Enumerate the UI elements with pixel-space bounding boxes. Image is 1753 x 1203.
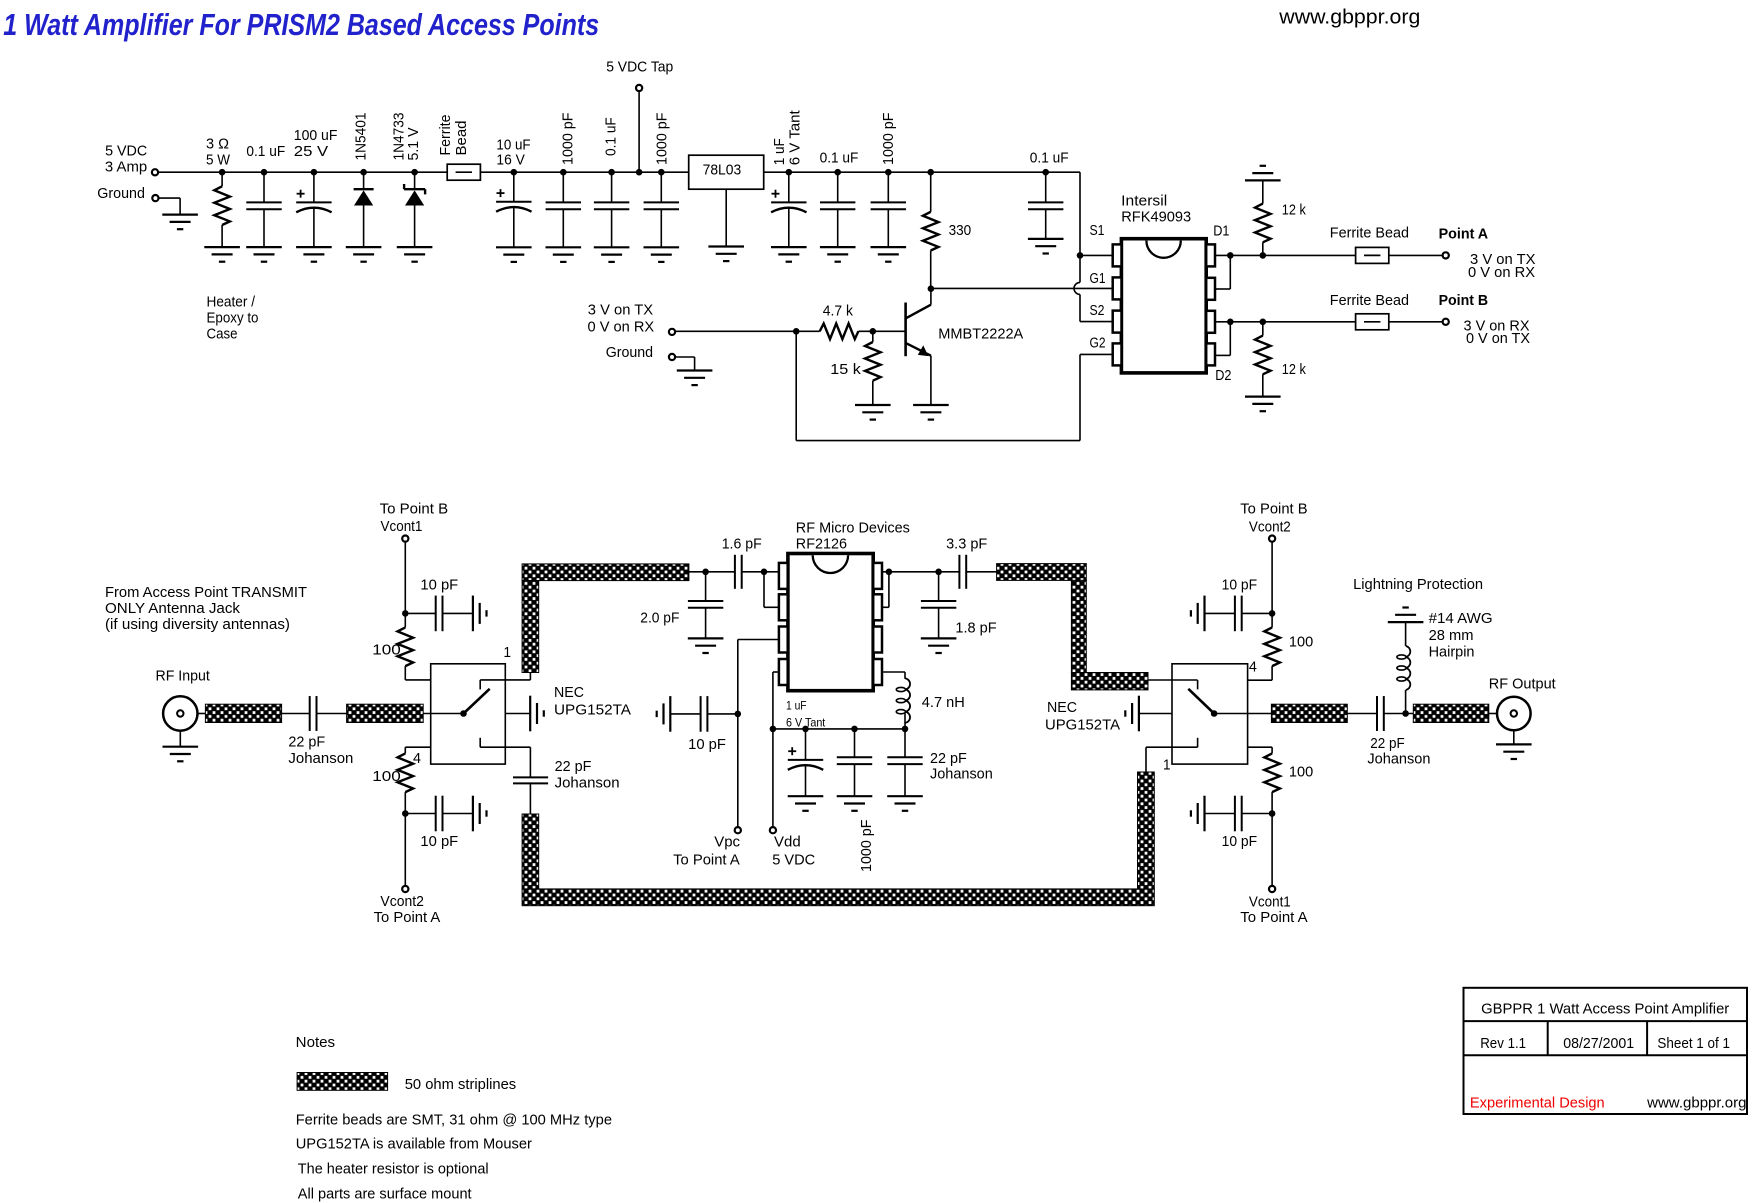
svg-text:Ferrite Bead: Ferrite Bead bbox=[1330, 225, 1409, 242]
ground bbox=[887, 795, 923, 797]
svg-text:UPG152TA is available from Mou: UPG152TA is available from Mouser bbox=[296, 1136, 532, 1153]
ground bbox=[771, 246, 807, 248]
svg-text:1000 pF: 1000 pF bbox=[880, 113, 897, 166]
stripline input segment 1 bbox=[205, 704, 281, 722]
svg-text:0.1 uF: 0.1 uF bbox=[603, 117, 620, 156]
svg-text:100: 100 bbox=[372, 768, 401, 785]
svg-text:RF Input: RF Input bbox=[156, 668, 211, 685]
node S1 junction bbox=[1077, 252, 1084, 259]
svg-text:0.1 uF: 0.1 uF bbox=[246, 143, 285, 160]
node control ground terminal bbox=[669, 354, 675, 360]
ground bbox=[296, 246, 332, 248]
wire 3.3 pF to stripline bbox=[966, 571, 996, 573]
switch U5 NEC UPG152TA (output) bbox=[1172, 664, 1248, 764]
node Vcont1 terminal (to Point A) bbox=[1271, 814, 1273, 886]
pole termination ground (rotated) bbox=[505, 713, 530, 715]
ground bbox=[546, 246, 582, 248]
svg-text:25 V: 25 V bbox=[294, 143, 328, 160]
capacitor 0.1 uF bbox=[834, 169, 841, 176]
svg-text:G1: G1 bbox=[1090, 270, 1106, 287]
switch throw 1 contact bbox=[479, 680, 481, 690]
pin G1 bbox=[1113, 277, 1122, 299]
pin D2 bbox=[1206, 311, 1215, 333]
stripline legend swatch bbox=[297, 1073, 388, 1091]
svg-text:S1: S1 bbox=[1090, 222, 1105, 239]
svg-text:Vcont2: Vcont2 bbox=[1249, 519, 1291, 536]
ground (input) bbox=[162, 214, 198, 216]
svg-text:5 VDC: 5 VDC bbox=[105, 143, 147, 160]
pin 2 right bbox=[1206, 278, 1215, 300]
svg-text:4.7 k: 4.7 k bbox=[823, 303, 854, 320]
resistor 12 k (D2) bbox=[1262, 322, 1264, 336]
wire stripline to throw 1 bbox=[1148, 679, 1198, 681]
svg-text:1 uF: 1 uF bbox=[786, 699, 807, 713]
wire pin 2 link bbox=[763, 572, 765, 608]
svg-text:1.8 pF: 1.8 pF bbox=[955, 620, 996, 637]
svg-text:UPG152TA: UPG152TA bbox=[554, 702, 631, 719]
connector RF Output bbox=[1489, 713, 1497, 715]
svg-text:Vcont1: Vcont1 bbox=[1249, 894, 1291, 911]
IC U4 RF Micro Devices RF2126 bbox=[788, 554, 873, 691]
svg-text:Experimental Design: Experimental Design bbox=[1470, 1095, 1605, 1112]
switch arm bbox=[464, 689, 490, 714]
connector RF Input bbox=[163, 696, 197, 730]
svg-text:12 k: 12 k bbox=[1282, 202, 1306, 219]
capacitor 10 pF (Vcont1 bypass) bbox=[402, 610, 409, 617]
svg-text:100: 100 bbox=[1289, 634, 1313, 651]
node switch pole bbox=[1211, 710, 1218, 717]
ground (control input) bbox=[677, 369, 713, 371]
node switch pole bbox=[460, 710, 467, 717]
wire pole output bbox=[1214, 713, 1271, 715]
stripline bottom bus bbox=[522, 889, 1154, 906]
svg-text:ONLY Antenna Jack: ONLY Antenna Jack bbox=[105, 600, 240, 617]
svg-text:Ferrite: Ferrite bbox=[437, 115, 454, 156]
svg-text:22 pF: 22 pF bbox=[555, 758, 592, 775]
inductor #14 AWG 28 mm hairpin bbox=[1405, 690, 1407, 714]
ground (RF input connector) bbox=[163, 746, 199, 748]
capacitor 1.6 pF bbox=[734, 555, 736, 589]
node Vpc terminal bbox=[735, 827, 741, 833]
svg-text:5 W: 5 W bbox=[206, 151, 231, 168]
ground bbox=[1028, 238, 1064, 240]
wire pin 7 link bbox=[888, 572, 890, 608]
svg-text:Vcont2: Vcont2 bbox=[380, 893, 424, 910]
svg-text:1000 pF: 1000 pF bbox=[559, 113, 576, 166]
svg-text:RFK49093: RFK49093 bbox=[1121, 209, 1191, 226]
node Point A terminal bbox=[1443, 252, 1449, 258]
svg-text:3 Amp: 3 Amp bbox=[105, 159, 147, 176]
ferrite bead (series, power rail) bbox=[447, 164, 480, 180]
capacitor 1000 pF bbox=[658, 169, 665, 176]
svg-text:The heater resistor is optiona: The heater resistor is optional bbox=[298, 1161, 489, 1178]
resistor 100 (upper, switch 2) bbox=[1271, 613, 1273, 627]
svg-text:To Point A: To Point A bbox=[673, 852, 740, 869]
regulator U2 78L03 bbox=[689, 155, 764, 189]
capacitor 100 uF 25 V electrolytic bbox=[311, 169, 318, 176]
svg-text:Ferrite beads are SMT, 31 ohm: Ferrite beads are SMT, 31 ohm @ 100 MHz … bbox=[296, 1112, 612, 1129]
svg-text:1.6 pF: 1.6 pF bbox=[722, 536, 762, 553]
ground (2.0 pF) bbox=[688, 637, 724, 639]
svg-text:3 Ω: 3 Ω bbox=[206, 135, 229, 152]
svg-text:0 V on RX: 0 V on RX bbox=[588, 319, 655, 336]
svg-text:100 uF: 100 uF bbox=[294, 127, 338, 144]
svg-text:1000 pF: 1000 pF bbox=[653, 113, 670, 166]
svg-text:10 pF: 10 pF bbox=[1222, 833, 1258, 850]
svg-text:Johanson: Johanson bbox=[288, 750, 353, 767]
svg-text:Vdd: Vdd bbox=[774, 834, 801, 851]
svg-text:2.0 pF: 2.0 pF bbox=[640, 610, 679, 627]
zener diode 1N4733 5.1 V bbox=[411, 169, 418, 176]
svg-text:22 pF: 22 pF bbox=[930, 750, 967, 767]
svg-text:0.1 uF: 0.1 uF bbox=[820, 150, 859, 167]
capacitor 10 pF (Vcont2 bypass) bbox=[1269, 610, 1276, 617]
inductor 4.7 nH bbox=[882, 671, 905, 673]
wire main rail bbox=[222, 171, 447, 173]
switch throw 2 contact bbox=[479, 738, 481, 747]
IC U1 Intersil RFK49093 bbox=[1121, 239, 1206, 373]
svg-text:To Point A: To Point A bbox=[1240, 909, 1307, 926]
ground (emitter) bbox=[913, 404, 949, 406]
svg-text:5 VDC: 5 VDC bbox=[772, 852, 815, 869]
resistor 100 (upper, switch 1) bbox=[404, 613, 406, 627]
svg-text:22 pF: 22 pF bbox=[288, 733, 325, 750]
svg-text:Ground: Ground bbox=[606, 344, 653, 361]
node Vdd terminal bbox=[770, 827, 776, 833]
diode 1N5401 bbox=[360, 169, 367, 176]
svg-text:Point B: Point B bbox=[1439, 292, 1489, 309]
wire Vdd / pin 4 bbox=[773, 671, 779, 673]
wire connector ground lead bbox=[1513, 730, 1515, 744]
wire D1 net bbox=[1215, 254, 1446, 256]
svg-text:Hairpin: Hairpin bbox=[1429, 644, 1475, 661]
svg-text:1 uF: 1 uF bbox=[771, 138, 788, 165]
svg-text:1: 1 bbox=[1163, 756, 1171, 773]
svg-text:12 k: 12 k bbox=[1282, 361, 1306, 378]
svg-text:GBPPR 1 Watt Access Point Ampl: GBPPR 1 Watt Access Point Amplifier bbox=[1481, 1001, 1729, 1018]
title block bbox=[1464, 988, 1748, 1114]
svg-text:10 pF: 10 pF bbox=[420, 577, 458, 594]
ferrite bead (Point A) bbox=[1356, 247, 1389, 263]
svg-text:Notes: Notes bbox=[296, 1034, 335, 1051]
svg-text:Johanson: Johanson bbox=[930, 766, 993, 783]
wire feedback loop base to G2 bbox=[795, 331, 797, 440]
svg-text:1000 pF: 1000 pF bbox=[858, 820, 875, 873]
stripline output segment 2 bbox=[1413, 704, 1489, 722]
svg-text:Vcont1: Vcont1 bbox=[381, 518, 423, 535]
capacitor 10 pF (Vcont2 bypass) bbox=[402, 810, 409, 817]
svg-text:www.gbppr.org: www.gbppr.org bbox=[1646, 1095, 1746, 1112]
resistor 12 k (D1) bbox=[1262, 242, 1264, 255]
svg-text:All parts are surface mount: All parts are surface mount bbox=[298, 1186, 473, 1203]
node Point B terminal bbox=[1443, 319, 1449, 325]
wire 1.6 pF to pin 1 bbox=[742, 571, 779, 573]
switch arm bbox=[1188, 689, 1214, 714]
pin 3 left bbox=[779, 627, 788, 653]
pin 5 right bbox=[873, 659, 882, 685]
ground (rotated left) bbox=[1203, 796, 1205, 832]
svg-text:From Access Point TRANSMIT: From Access Point TRANSMIT bbox=[105, 584, 307, 601]
capacitor 0.1 uF (input) bbox=[261, 169, 268, 176]
capacitor 22 pF Johanson (input DC block) bbox=[282, 713, 310, 715]
svg-text:0.1 uF: 0.1 uF bbox=[1030, 150, 1069, 167]
svg-text:RF Output: RF Output bbox=[1489, 676, 1557, 693]
wire pin 8 output bbox=[882, 571, 959, 573]
ground (rotated) bbox=[472, 796, 474, 832]
wire connector ground lead bbox=[179, 731, 181, 747]
svg-text:16 V: 16 V bbox=[496, 151, 524, 168]
node control input terminal 3V TX / 0V RX bbox=[669, 329, 675, 335]
svg-text:Point A: Point A bbox=[1439, 225, 1489, 242]
svg-text:www.gbppr.org: www.gbppr.org bbox=[1278, 7, 1420, 29]
ground (12 k D1, inverted) bbox=[1245, 179, 1281, 181]
svg-text:Johanson: Johanson bbox=[555, 775, 620, 792]
pin D1 bbox=[1206, 244, 1215, 266]
capacitor 0.1 uF (at RFK49093) bbox=[1042, 169, 1049, 176]
svg-text:To Point B: To Point B bbox=[1240, 501, 1307, 518]
node Vcont2 terminal (to Point B) bbox=[1269, 536, 1275, 542]
pin 4 right bbox=[1206, 343, 1215, 365]
ground (78L03) bbox=[708, 245, 744, 247]
ground (rotated left) bbox=[1203, 596, 1205, 632]
pole termination ground (rotated left) bbox=[1139, 713, 1172, 715]
capacitor 1 uF 6 V tantalum bbox=[786, 169, 793, 176]
resistor 100 (lower, switch 1) bbox=[405, 746, 430, 748]
svg-text:MMBT2222A: MMBT2222A bbox=[938, 326, 1023, 343]
ground bbox=[397, 246, 433, 248]
wire rail drop to S1/S2 with crossover hop bbox=[1079, 172, 1081, 282]
svg-text:5.1 V: 5.1 V bbox=[405, 128, 422, 161]
wire pole input bbox=[423, 713, 463, 715]
svg-text:50 ohm striplines: 50 ohm striplines bbox=[405, 1076, 517, 1093]
svg-text:100: 100 bbox=[372, 642, 401, 659]
wire D2 net bbox=[1215, 321, 1446, 323]
svg-text:UPG152TA: UPG152TA bbox=[1045, 717, 1120, 734]
capacitor 22 pF Johanson (throw 2 to stripline) bbox=[529, 747, 531, 777]
svg-text:4: 4 bbox=[1249, 658, 1257, 675]
resistor 4.7 k bbox=[820, 324, 859, 340]
svg-text:D1: D1 bbox=[1213, 223, 1229, 240]
svg-text:Ground: Ground bbox=[97, 185, 145, 202]
svg-text:330: 330 bbox=[949, 222, 972, 239]
stripline L (switch1 to RF2126) bbox=[522, 564, 689, 581]
svg-text:S2: S2 bbox=[1090, 302, 1105, 319]
svg-text:100: 100 bbox=[1289, 764, 1313, 781]
svg-text:RF2126: RF2126 bbox=[796, 536, 847, 553]
wire to transistor base bbox=[870, 328, 877, 335]
svg-text:22 pF: 22 pF bbox=[1370, 735, 1404, 752]
svg-text:D2: D2 bbox=[1215, 367, 1231, 384]
svg-text:RF Micro Devices: RF Micro Devices bbox=[796, 520, 910, 537]
svg-text:Intersil: Intersil bbox=[1121, 193, 1167, 210]
ground bbox=[871, 246, 907, 248]
stripline output segment 1 bbox=[1271, 704, 1347, 722]
svg-text:Sheet 1 of 1: Sheet 1 of 1 bbox=[1657, 1035, 1730, 1052]
capacitor 1 uF 6 V tant (bus) bbox=[802, 726, 809, 733]
wire Vpc line (pin 3) bbox=[738, 639, 779, 641]
node Ground input terminal bbox=[152, 195, 158, 201]
svg-text:08/27/2001: 08/27/2001 bbox=[1563, 1035, 1634, 1052]
ground bbox=[788, 795, 824, 797]
pin 7 right bbox=[873, 594, 882, 620]
svg-text:0 V on TX: 0 V on TX bbox=[1466, 330, 1530, 347]
ground (heater resistor) bbox=[204, 246, 240, 248]
svg-text:G2: G2 bbox=[1090, 335, 1106, 352]
svg-text:78L03: 78L03 bbox=[703, 162, 742, 179]
switch throw 2 contact bbox=[1197, 738, 1199, 747]
svg-text:Johanson: Johanson bbox=[1367, 751, 1430, 768]
node Vcont1 terminal (to Point B) bbox=[402, 536, 408, 542]
svg-text:28 mm: 28 mm bbox=[1429, 627, 1474, 644]
capacitor 10 pF (Vcont1 bypass) bbox=[1269, 810, 1276, 817]
svg-text:6 V Tant: 6 V Tant bbox=[787, 109, 804, 165]
capacitor 22 pF Johanson (output DC block) bbox=[1347, 713, 1377, 715]
svg-text:To Point B: To Point B bbox=[380, 501, 449, 518]
pin 6 right bbox=[873, 627, 882, 653]
svg-text:Epoxy to: Epoxy to bbox=[207, 310, 259, 327]
svg-text:0 V on RX: 0 V on RX bbox=[1468, 264, 1535, 281]
pin 1 left bbox=[779, 563, 788, 589]
ground bbox=[246, 246, 282, 248]
capacitor 1000 pF (bus) bbox=[851, 726, 858, 733]
ground (12 k D2) bbox=[1245, 396, 1281, 398]
ground (RF output connector) bbox=[1496, 743, 1532, 745]
node hairpin junction bbox=[1402, 710, 1409, 717]
svg-text:15 k: 15 k bbox=[830, 361, 861, 378]
svg-text:Ferrite Bead: Ferrite Bead bbox=[1330, 292, 1409, 309]
capacitor 10 pF (Vpc bypass) bbox=[735, 711, 742, 718]
switch U3 NEC UPG152TA (input) bbox=[431, 664, 506, 764]
pin 2 left bbox=[779, 594, 788, 620]
ground (1.8 pF) bbox=[921, 637, 957, 639]
svg-text:NEC: NEC bbox=[554, 684, 584, 701]
resistor 100 (lower, switch 2) bbox=[1248, 746, 1273, 748]
wire stripline to 1.6 pF bbox=[689, 571, 735, 573]
capacitor 0.1 uF bbox=[608, 169, 615, 176]
svg-text:Lightning Protection: Lightning Protection bbox=[1353, 576, 1483, 593]
ground bbox=[820, 246, 856, 248]
stripline lower-right vertical bbox=[1138, 772, 1155, 889]
svg-text:NEC: NEC bbox=[1047, 699, 1077, 716]
node 5 VDC Tap terminal bbox=[636, 85, 642, 91]
svg-text:Rev 1.1: Rev 1.1 bbox=[1480, 1035, 1526, 1052]
pin G2 bbox=[1113, 343, 1122, 365]
svg-text:(if using diversity antennas): (if using diversity antennas) bbox=[105, 616, 290, 633]
capacitor 2.0 pF bbox=[705, 572, 707, 601]
svg-text:10 pF: 10 pF bbox=[1222, 577, 1258, 594]
svg-text:10 pF: 10 pF bbox=[688, 736, 726, 753]
pin 8 right bbox=[873, 563, 882, 589]
svg-text:Bead: Bead bbox=[453, 121, 470, 156]
svg-text:1: 1 bbox=[504, 644, 512, 661]
ground bbox=[644, 246, 680, 248]
transistor Q1 MMBT2222A bbox=[904, 303, 907, 357]
wire throw 2 to stripline bbox=[1145, 747, 1147, 772]
wire regulator ground lead bbox=[725, 189, 727, 246]
svg-text:Heater /: Heater / bbox=[207, 294, 256, 311]
capacitor 1000 pF bbox=[885, 169, 892, 176]
resistor 330 collector pull-up bbox=[927, 169, 934, 176]
ground (hairpin, inverted) bbox=[1388, 621, 1424, 623]
svg-text:1 Watt Amplifier For PRISM2 Ba: 1 Watt Amplifier For PRISM2 Based Access… bbox=[3, 7, 599, 42]
resistor 15 k bbox=[872, 331, 874, 342]
svg-text:To Point A: To Point A bbox=[374, 909, 441, 926]
stripline input segment 2 bbox=[347, 704, 424, 722]
wire collector to G1 bbox=[931, 287, 1113, 289]
ground bbox=[346, 246, 382, 248]
switch throw 1 contact bbox=[1197, 680, 1199, 689]
ground bbox=[496, 246, 532, 248]
svg-text:5 VDC Tap: 5 VDC Tap bbox=[606, 59, 673, 76]
ground bbox=[837, 795, 873, 797]
ground (15 k) bbox=[855, 404, 891, 406]
svg-text:3.3 pF: 3.3 pF bbox=[946, 536, 987, 553]
node Vcont2 terminal (to Point A) bbox=[404, 814, 406, 886]
pin S1 bbox=[1113, 244, 1122, 266]
node 5VDC input terminal bbox=[152, 169, 158, 175]
svg-text:1N5401: 1N5401 bbox=[353, 113, 370, 161]
svg-text:6 V Tant: 6 V Tant bbox=[786, 716, 826, 730]
svg-text:Case: Case bbox=[207, 326, 238, 343]
capacitor 1000 pF bbox=[560, 169, 567, 176]
stripline Z (RF2126 to switch2) bbox=[997, 564, 1087, 581]
wire decoupling bus bbox=[773, 728, 905, 730]
svg-text:10 pF: 10 pF bbox=[420, 833, 458, 850]
ground (rotated left) bbox=[669, 696, 671, 732]
svg-text:3 V on TX: 3 V on TX bbox=[588, 302, 653, 319]
pin S2 bbox=[1113, 311, 1122, 333]
capacitor 3.3 pF bbox=[958, 555, 960, 589]
ground (rotated) bbox=[472, 596, 474, 632]
capacitor 1.8 pF bbox=[938, 572, 940, 601]
resistor 3 ohm 5 W heater bbox=[219, 169, 226, 176]
svg-text:Vpc: Vpc bbox=[714, 834, 740, 851]
svg-text:#14 AWG: #14 AWG bbox=[1429, 610, 1493, 627]
ground bbox=[594, 246, 630, 248]
capacitor 10 uF 16 V electrolytic bbox=[511, 169, 518, 176]
pin 4 left bbox=[779, 659, 788, 685]
capacitor 22 pF Johanson (bus) bbox=[902, 726, 909, 733]
wire base node bbox=[793, 328, 800, 335]
stripline lower-left vertical bbox=[522, 814, 539, 889]
ferrite bead (Point B) bbox=[1356, 314, 1389, 330]
svg-text:4.7 nH: 4.7 nH bbox=[922, 694, 965, 711]
